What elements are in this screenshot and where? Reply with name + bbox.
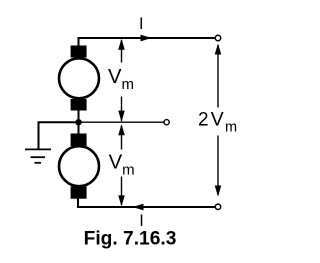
wire: motor M1 through junction to motor M2 (78, 111, 80, 134)
junction dot (node B) (75, 119, 81, 125)
dimension Vm (lower): line with arrows (121, 126, 123, 206)
motor M1 body (59, 58, 99, 98)
node A terminal (top right open circle) (215, 35, 220, 40)
current arrow I (bottom, pointing left) (133, 204, 144, 211)
motor M1 brush (bottom) (71, 99, 87, 111)
svg-text:I: I (139, 15, 144, 33)
dimension 2Vm (right): line with arrows (217, 45, 219, 195)
middle terminal (open circle) (164, 120, 169, 125)
dimension Vm (upper): line with arrows (121, 40, 123, 121)
wire: node B tap to middle terminal (79, 121, 164, 123)
bottom right terminal (open circle) (215, 204, 220, 209)
motor M1 brush (top) (71, 46, 87, 58)
ground (25, 149, 51, 162)
motor M2 brush (top) (71, 134, 87, 147)
svg-text:I: I (139, 212, 144, 230)
motor M2 brush (bottom) (71, 186, 87, 198)
wire: middle node to ground corner (39, 122, 79, 148)
svg-text:Fig. 7.16.3: Fig. 7.16.3 (84, 229, 177, 250)
current arrow I (top, pointing right) (141, 35, 152, 42)
motor M2 body (59, 146, 99, 186)
wire top: motor M1 top terminal to node A (79, 38, 216, 46)
wire bottom: motor M2 to bottom right terminal (78, 199, 215, 208)
